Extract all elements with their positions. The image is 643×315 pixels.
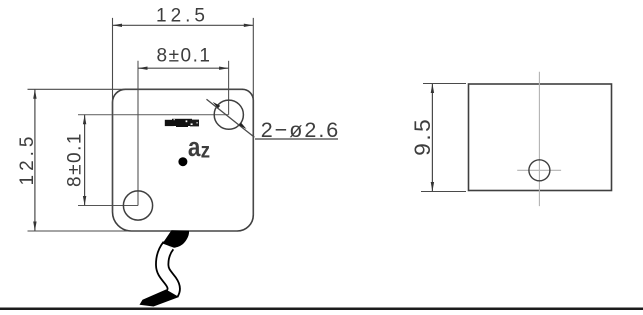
wire: black wedge where cable exits body	[163, 230, 190, 248]
dimension 12.5 left: dim line	[34, 89, 36, 231]
dimension 12.5 left: top arrow	[33, 89, 36, 99]
hole bottom-left 2-Ø2.6	[123, 191, 152, 220]
svg-text:9.5: 9.5	[410, 117, 435, 156]
svg-text:8±0.1: 8±0.1	[157, 46, 212, 67]
svg-text:a: a	[188, 133, 201, 162]
svg-text:12.5: 12.5	[17, 133, 38, 186]
dimension 8±0.1 left: text (rotated)	[65, 132, 86, 187]
wire: ribbon cable S-band inner (white)	[162, 246, 174, 294]
hole top-right 2-Ø2.6	[214, 100, 243, 129]
right view: vertical centerline	[538, 72, 540, 206]
marking: sound hole dot	[178, 157, 187, 166]
leader 2-Ø2.6: lower arrow on hole edge	[239, 123, 247, 129]
svg-text:2−ø2.6: 2−ø2.6	[261, 118, 341, 142]
marking: small illegible black logo text on body	[165, 119, 199, 127]
leader 2-Ø2.6: upper arrow on hole edge	[213, 102, 221, 108]
right view: hole circle	[529, 160, 550, 181]
extension line y=205.5 to bottom-left hole center (left 8±0.1 dim)	[78, 205, 138, 207]
dimension 8±0.1 top: dim line	[138, 67, 229, 69]
right view: horizontal centerline	[517, 169, 561, 171]
dimension 12.5 left: top extension line	[28, 88, 243, 90]
dimension 9.5: bottom arrow	[431, 182, 434, 192]
wire: black flattened cable tip	[140, 290, 180, 307]
leader 2-Ø2.6: horizontal shelf	[255, 138, 338, 140]
marking: bold "a" glyph	[188, 133, 201, 162]
label 2-Ø2.6 text	[261, 118, 341, 142]
body outline (left view, rounded square)	[113, 89, 254, 231]
dimension 12.5 top: dim line	[113, 24, 254, 26]
dimension 12.5 top: left arrow	[113, 24, 123, 27]
dimension 9.5: top extension line	[423, 83, 466, 85]
extension line x=138 to bottom-left hole center (top 8±0.1 dim)	[137, 61, 139, 206]
dimension 12.5 left: bottom extension line	[28, 230, 238, 232]
dimension 9.5: dim line	[431, 84, 433, 192]
dimension 12.5 left: bottom arrow	[33, 222, 36, 232]
extension line x=228.6 to top-right hole center (top 8±0.1 dim)	[228, 61, 230, 115]
leader 2-Ø2.6: diagonal line through top-right hole	[207, 99, 255, 137]
dimension 8±0.1 top: text	[157, 46, 212, 67]
dimension 8±0.1 left: dim line	[84, 115, 86, 206]
svg-text:z: z	[201, 140, 210, 163]
dimension 8±0.1 top: right arrow	[219, 67, 229, 70]
dimension 9.5: top arrow	[431, 84, 434, 94]
dimension 9.5: text (rotated)	[410, 117, 435, 156]
wire: ribbon cable S-band outer (black)	[162, 246, 174, 294]
dimension 12.5 left: text (rotated)	[17, 133, 38, 186]
dimension 12.5 top: text	[156, 6, 209, 27]
extension line y=114.7 to top-right hole center (left 8±0.1 dim)	[78, 114, 229, 116]
dimension 8±0.1 left: top arrow	[83, 115, 86, 125]
dimension 9.5: bottom extension line	[421, 191, 466, 193]
dimension 12.5 top: right extension line	[252, 18, 254, 215]
dimension 8±0.1 left: bottom arrow	[83, 196, 86, 206]
dimension 8±0.1 top: left arrow	[138, 67, 148, 70]
svg-text:12.5: 12.5	[156, 6, 209, 27]
marking: bold subscript "z" glyph	[201, 140, 210, 163]
sheet border line at bottom	[0, 307, 643, 310]
dimension 12.5 top: left extension line	[112, 18, 114, 212]
right view: rectangle outline	[469, 84, 612, 191]
svg-text:8±0.1: 8±0.1	[65, 132, 86, 187]
dimension 12.5 top: right arrow	[244, 24, 254, 27]
